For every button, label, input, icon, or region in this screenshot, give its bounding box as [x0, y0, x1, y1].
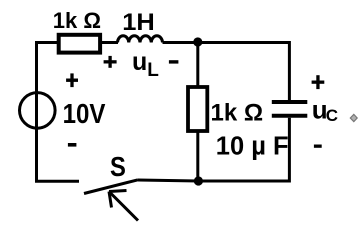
node: top junction dot [193, 37, 202, 46]
voltage source V1 circle [20, 93, 56, 129]
wire: top-left horizontal segment [37, 43, 61, 61]
svg-text:S: S [110, 150, 126, 182]
svg-text:uC: uC [312, 94, 338, 125]
capacitor C1 top plate [272, 100, 308, 104]
wire: top dot down to resistor R2 [196, 42, 199, 88]
wire: bottom-left segment to switch [37, 160, 80, 181]
switch actuation arrow shaft [109, 192, 138, 221]
wire: resistor R1 to inductor [100, 41, 118, 44]
label - (uL polarity) [169, 60, 179, 63]
wire: resistor R2 to bottom dot [196, 131, 199, 181]
label + (source polarity) [66, 73, 78, 87]
cursor artifact (gray arrowhead at right edge) [350, 114, 357, 121]
node: bottom junction dot [194, 176, 203, 185]
label - (source polarity) [68, 143, 77, 147]
resistor R1 1k ohm (series, horizontal box) [59, 35, 100, 53]
wire: left vertical (through source) [35, 43, 38, 183]
resistor R2 1k ohm (vertical box) [188, 87, 207, 131]
switch arrow barb right [109, 191, 127, 192]
svg-text:10V: 10V [63, 97, 106, 129]
label + (uL polarity) [104, 56, 117, 68]
inductor L1 1H (4 humps) [118, 36, 163, 43]
svg-text:1k Ω: 1k Ω [53, 8, 101, 33]
wire: bottom dot left to switch contact [138, 180, 198, 181]
svg-text:10 µ F: 10 µ F [216, 133, 289, 161]
capacitor C1 bottom plate [272, 114, 308, 118]
wire: inductor to top-right corner [163, 43, 290, 102]
svg-text:uL: uL [132, 48, 159, 81]
wire: capacitor bottom plate to bottom-right corner [198, 118, 289, 181]
label + (uC polarity) [312, 75, 325, 89]
label - (uC polarity) [314, 145, 322, 148]
switch arrow barb down [109, 192, 112, 208]
svg-text:1k Ω: 1k Ω [211, 99, 264, 126]
svg-text:1H: 1H [122, 9, 155, 36]
switch S blade [84, 180, 138, 194]
